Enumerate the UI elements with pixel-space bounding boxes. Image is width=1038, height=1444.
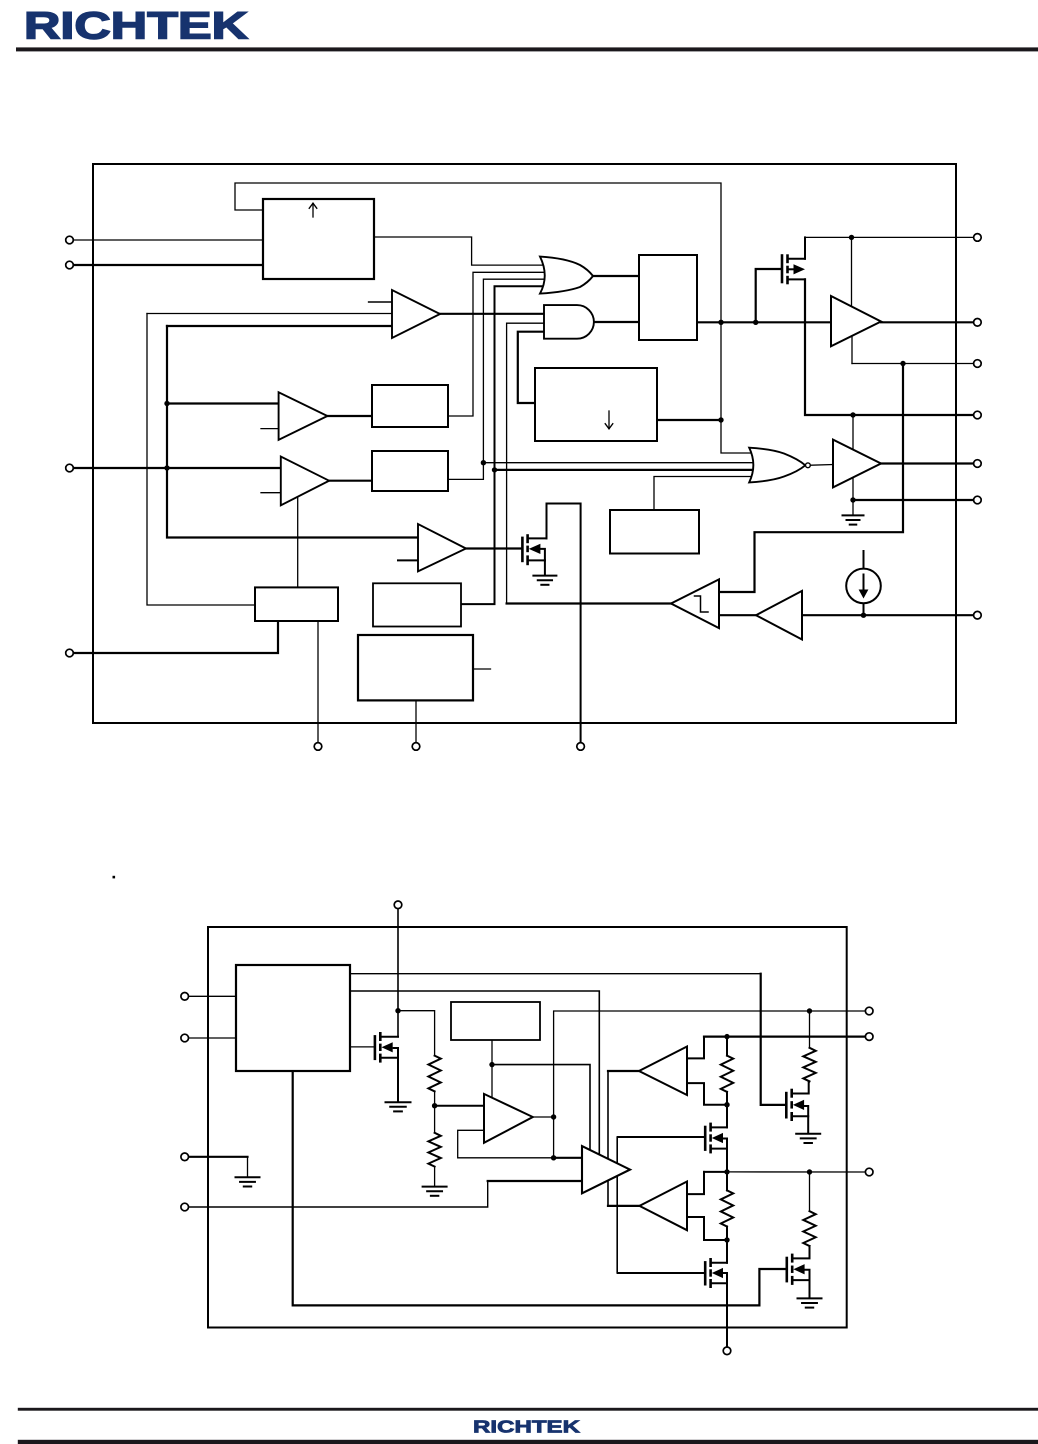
svg-text:RICHTEK: RICHTEK	[24, 6, 249, 48]
svg-text:RICHTEK: RICHTEK	[473, 1417, 580, 1437]
